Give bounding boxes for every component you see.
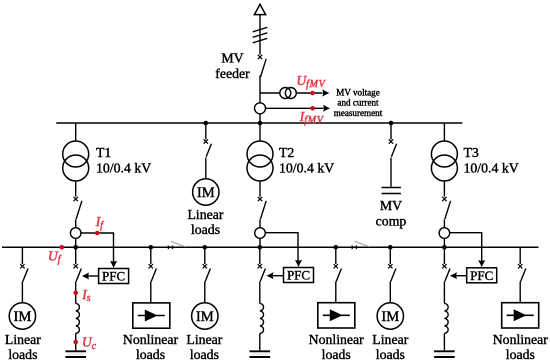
svg-text:Linear: Linear bbox=[5, 332, 41, 347]
svg-text:T1: T1 bbox=[96, 145, 111, 160]
svg-text:loads: loads bbox=[376, 347, 405, 362]
svg-text:loads: loads bbox=[136, 347, 165, 362]
svg-text:UfMV: UfMV bbox=[297, 73, 327, 90]
svg-text:feeder: feeder bbox=[215, 66, 250, 81]
svg-text:10/0.4 kV: 10/0.4 kV bbox=[464, 161, 519, 176]
svg-text:Linear: Linear bbox=[187, 207, 223, 222]
svg-text:and current: and current bbox=[337, 98, 379, 108]
svg-text:Nonlinear: Nonlinear bbox=[493, 332, 549, 347]
svg-text:loads: loads bbox=[191, 222, 220, 237]
svg-text:loads: loads bbox=[506, 347, 535, 362]
svg-text:Uc: Uc bbox=[82, 335, 97, 352]
svg-text:Linear: Linear bbox=[372, 332, 408, 347]
svg-text:comp: comp bbox=[376, 214, 407, 229]
svg-text:T2: T2 bbox=[279, 145, 294, 160]
svg-text:10/0.4 kV: 10/0.4 kV bbox=[96, 161, 151, 176]
svg-text:If: If bbox=[95, 214, 104, 231]
svg-text:MV: MV bbox=[221, 51, 243, 66]
svg-text:Nonlinear: Nonlinear bbox=[309, 332, 365, 347]
svg-text:measurement: measurement bbox=[334, 108, 383, 118]
svg-text:MV: MV bbox=[380, 198, 402, 213]
svg-text:loads: loads bbox=[190, 347, 219, 362]
svg-text:Nonlinear: Nonlinear bbox=[123, 332, 179, 347]
svg-text:MV voltage: MV voltage bbox=[336, 87, 380, 97]
svg-text:Is: Is bbox=[81, 287, 90, 304]
svg-text:Linear: Linear bbox=[186, 332, 222, 347]
svg-text:IfMV: IfMV bbox=[299, 109, 325, 126]
svg-text:Uf: Uf bbox=[48, 248, 62, 265]
svg-text:T3: T3 bbox=[464, 145, 479, 160]
svg-text:loads: loads bbox=[8, 347, 37, 362]
svg-text:10/0.4 kV: 10/0.4 kV bbox=[279, 161, 334, 176]
svg-text:loads: loads bbox=[322, 347, 351, 362]
